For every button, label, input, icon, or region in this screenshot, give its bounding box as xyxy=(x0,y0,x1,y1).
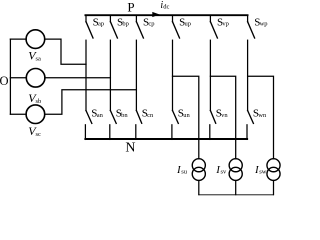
svg-text:wp: wp xyxy=(260,20,268,27)
wire column w to Isw xyxy=(248,76,274,159)
svg-text:N: N xyxy=(125,141,135,156)
svg-text:sv: sv xyxy=(221,168,228,175)
switch Sbp xyxy=(110,15,117,38)
switch Sbn xyxy=(110,111,116,140)
wire column v to Isv xyxy=(210,76,235,159)
switch Svn xyxy=(210,111,216,140)
wire column c xyxy=(135,40,137,110)
svg-text:cp: cp xyxy=(148,20,154,27)
svg-text:O: O xyxy=(0,74,9,88)
wire Vsa left xyxy=(10,38,26,40)
wire column a xyxy=(85,40,87,110)
switch Scn xyxy=(136,111,142,140)
source Isu xyxy=(192,159,205,181)
svg-text:bn: bn xyxy=(121,112,128,119)
svg-text:sa: sa xyxy=(36,55,42,62)
wire column u xyxy=(172,40,174,110)
svg-text:vp: vp xyxy=(222,20,229,27)
source Vsc xyxy=(26,105,45,124)
switch Sup xyxy=(173,15,180,38)
svg-text:ap: ap xyxy=(98,20,104,27)
wire column v xyxy=(209,40,211,110)
wire N rail xyxy=(85,138,247,140)
wire column w xyxy=(247,40,249,110)
svg-text:vn: vn xyxy=(221,112,228,119)
wire neutral rail xyxy=(199,194,274,196)
wire Vsc to column c xyxy=(45,90,137,115)
wire P rail xyxy=(85,14,247,16)
wire Isv bottom xyxy=(235,181,237,195)
svg-text:dc: dc xyxy=(163,3,169,10)
svg-text:sw: sw xyxy=(259,168,267,175)
wire column b xyxy=(109,40,111,110)
switch Swn xyxy=(247,111,253,140)
wire Vsb to column b xyxy=(45,77,111,79)
svg-text:sc: sc xyxy=(36,131,42,138)
source Isv xyxy=(229,159,242,181)
switch Swp xyxy=(248,15,255,38)
wire column u to Isu xyxy=(173,76,199,159)
svg-text:P: P xyxy=(127,0,134,15)
source Vsb xyxy=(26,69,45,88)
switch Sun xyxy=(172,111,178,140)
wire Isu bottom xyxy=(198,181,200,195)
wire Isw bottom xyxy=(273,181,275,195)
arrow idc xyxy=(152,12,159,17)
wire Vsb left xyxy=(10,77,26,79)
node O bus xyxy=(9,39,11,114)
svg-text:su: su xyxy=(181,168,188,175)
wire Vsa to column a xyxy=(45,39,86,64)
switch Sap xyxy=(86,15,93,38)
svg-text:sb: sb xyxy=(36,98,42,105)
source Isw xyxy=(267,159,280,181)
wire Vsc left xyxy=(10,113,26,115)
svg-text:up: up xyxy=(185,20,192,27)
svg-text:cn: cn xyxy=(147,112,154,119)
switch Scp xyxy=(136,15,143,38)
svg-text:bp: bp xyxy=(122,20,128,27)
switch Svp xyxy=(210,15,217,38)
switch San xyxy=(85,111,91,140)
svg-text:wn: wn xyxy=(258,112,267,119)
source Vsa xyxy=(26,30,45,49)
svg-text:an: an xyxy=(97,112,104,119)
svg-text:un: un xyxy=(183,112,190,119)
